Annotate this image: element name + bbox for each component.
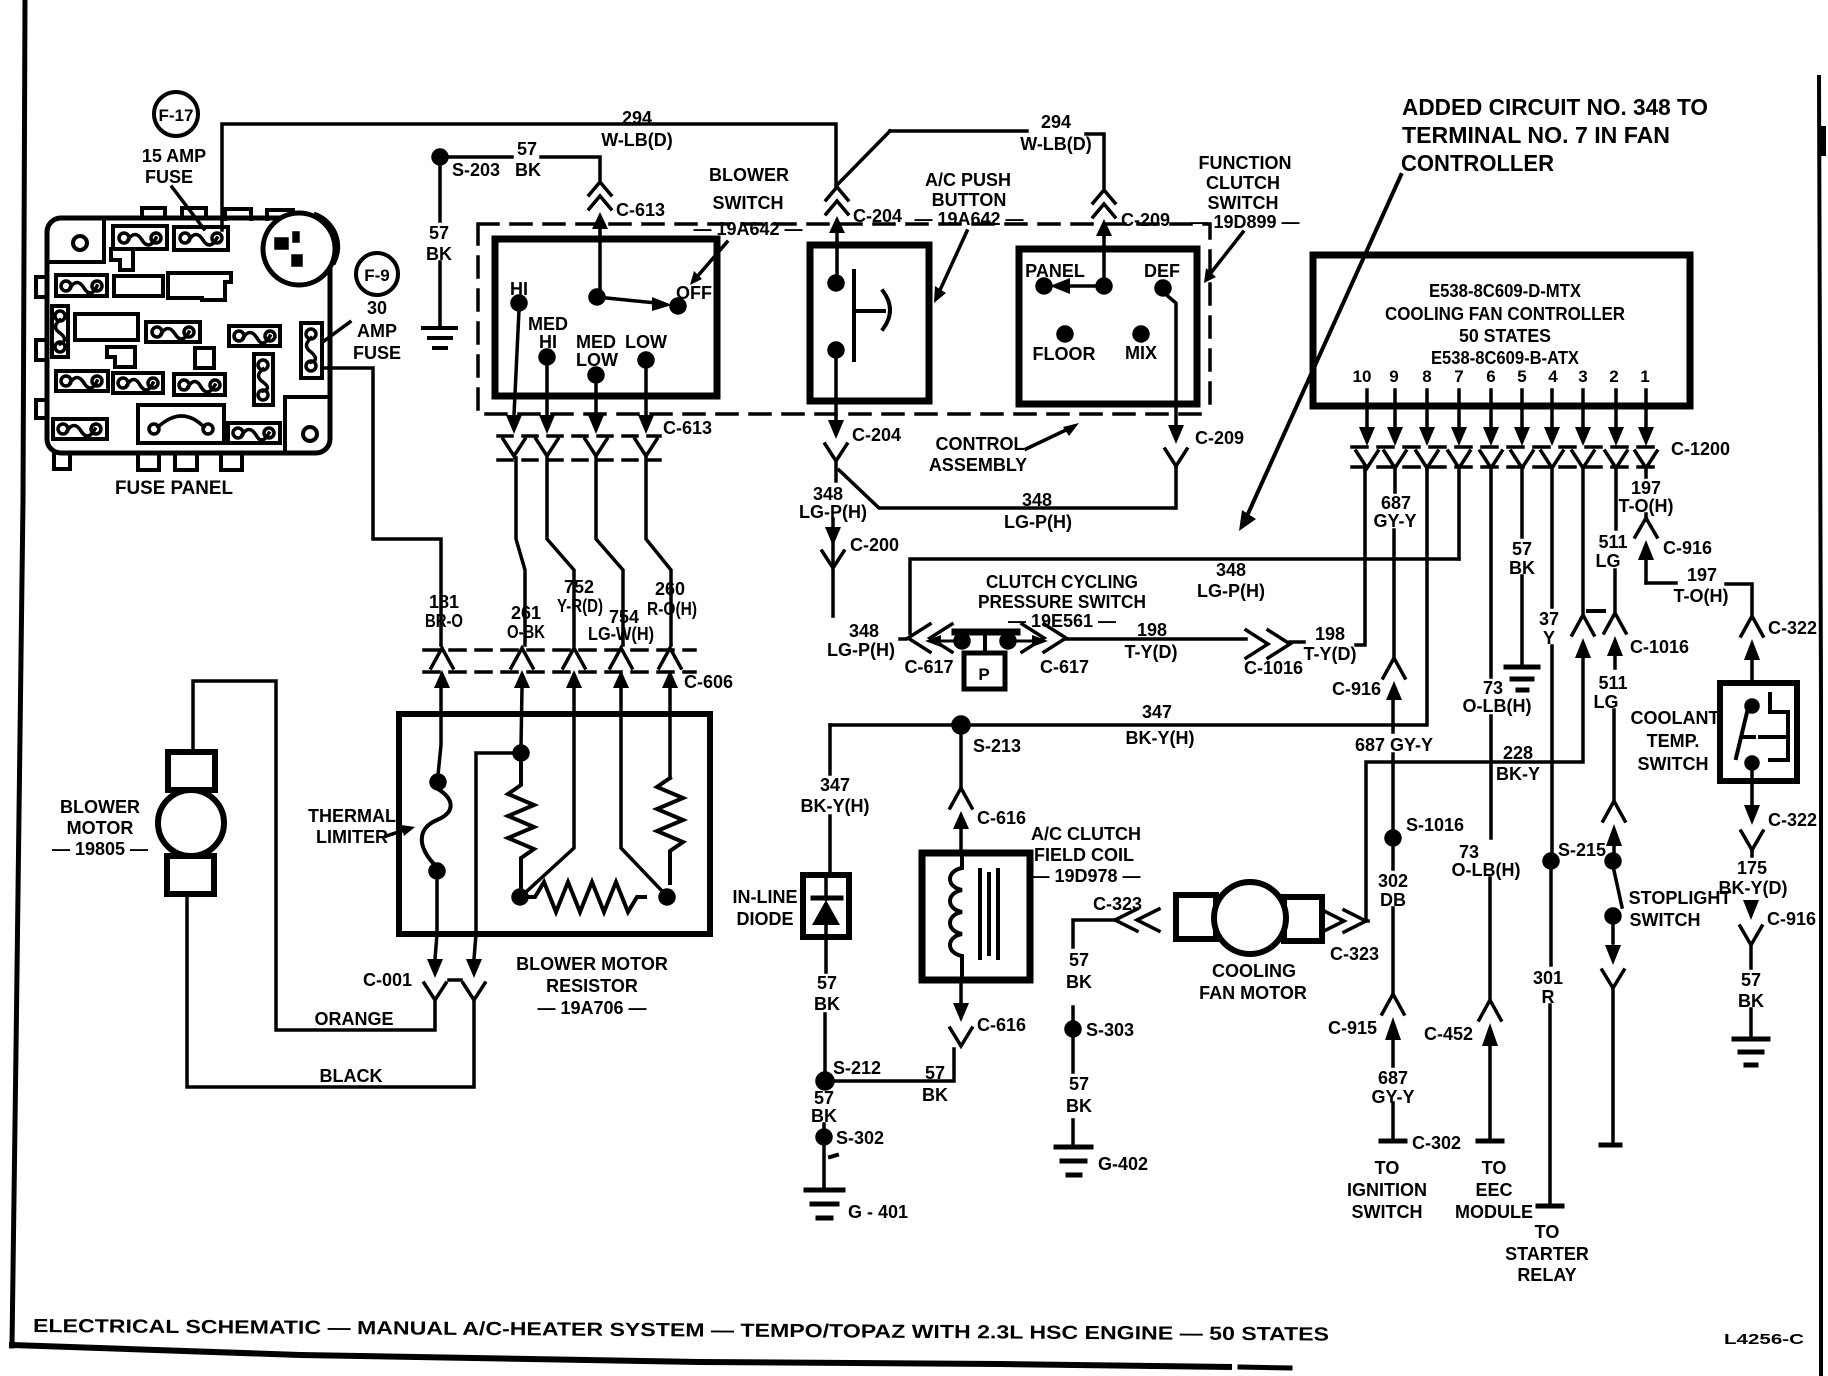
blower switch box 19A642 xyxy=(495,239,717,396)
fuse F3 xyxy=(56,275,107,296)
fuse F12 xyxy=(228,423,280,443)
resistor bottom-left node xyxy=(513,890,527,904)
svg-text:BUTTON: BUTTON xyxy=(932,190,1007,210)
pointer function clutch switch xyxy=(1210,232,1243,274)
svg-text:LG: LG xyxy=(1594,692,1619,712)
wire 181 BR-O from 30 amp fuse xyxy=(322,368,441,645)
svg-text:BLACK: BLACK xyxy=(320,1066,383,1086)
pointer arrow added circuit to C-1200 xyxy=(1247,175,1401,516)
dash at C-1016 xyxy=(1588,609,1604,613)
svg-text:8: 8 xyxy=(1422,367,1431,386)
control assembly dashed box xyxy=(478,224,1210,416)
svg-text:ORANGE: ORANGE xyxy=(314,1009,393,1029)
connector C-617 left xyxy=(908,624,952,652)
svg-text:57: 57 xyxy=(817,973,837,993)
wire 347 BK-Y(H) horizontal xyxy=(830,468,1427,725)
wire pin 5 57 BK to ground xyxy=(1520,468,1524,665)
connector C-204 top xyxy=(826,187,848,276)
wire S-302 to ground G-401 xyxy=(822,1144,826,1188)
connector C-322 bottom xyxy=(1741,805,1763,850)
wire S-212 to S-302 xyxy=(822,1124,826,1130)
svg-text:C-323: C-323 xyxy=(1093,894,1142,914)
fuse id circle F-9 xyxy=(356,253,398,295)
junction S-213 xyxy=(953,717,969,733)
fuse F8 xyxy=(56,371,108,391)
wire 73 to EEC bar xyxy=(1488,1046,1492,1138)
svg-text:Y: Y xyxy=(1543,628,1555,648)
svg-text:511: 511 xyxy=(1598,673,1627,693)
svg-text:DIODE: DIODE xyxy=(736,909,793,929)
wire 197 T-O(H) to coolant temp switch xyxy=(1646,583,1752,616)
svg-text:LG-P(H): LG-P(H) xyxy=(1197,581,1265,601)
svg-text:C-204: C-204 xyxy=(852,425,901,445)
svg-text:50 STATES: 50 STATES xyxy=(1459,326,1551,346)
svg-text:197: 197 xyxy=(1631,478,1661,498)
svg-text:C-606: C-606 xyxy=(684,672,733,692)
connector C-209 lower xyxy=(1165,425,1187,466)
svg-text:SWITCH: SWITCH xyxy=(1638,754,1709,774)
svg-text:S-203: S-203 xyxy=(452,160,500,180)
svg-text:TO: TO xyxy=(1535,1222,1560,1242)
svg-text:C-916: C-916 xyxy=(1332,679,1381,699)
svg-text:73: 73 xyxy=(1459,842,1479,862)
svg-text:MIX: MIX xyxy=(1125,343,1157,363)
svg-text:A/C PUSH: A/C PUSH xyxy=(925,170,1011,190)
svg-text:LG-P(H): LG-P(H) xyxy=(827,640,895,660)
svg-text:DEF: DEF xyxy=(1144,261,1180,281)
svg-text:9: 9 xyxy=(1389,367,1398,386)
fuse id circle F-17 xyxy=(154,92,198,136)
wire HI to connector xyxy=(514,310,519,415)
svg-text:198: 198 xyxy=(1137,620,1167,640)
fuse panel top tabs xyxy=(142,208,293,219)
svg-text:SWITCH: SWITCH xyxy=(713,193,784,213)
connector C-209 top xyxy=(1093,190,1115,279)
svg-text:C-915: C-915 xyxy=(1328,1018,1377,1038)
svg-text:347: 347 xyxy=(820,775,850,795)
svg-text:SWITCH: SWITCH xyxy=(1630,910,1701,930)
svg-text:T-O(H): T-O(H) xyxy=(1619,496,1674,516)
wire pin 7 348 LG-P(H) xyxy=(1457,468,1461,559)
junction dot 261 in resistor xyxy=(514,746,528,760)
thermal limiter element xyxy=(422,789,451,863)
wire 260 into resistor box xyxy=(668,688,672,778)
svg-text:348: 348 xyxy=(849,621,879,641)
wire DEF to C-209 lower xyxy=(1163,292,1176,425)
svg-text:348: 348 xyxy=(1022,490,1052,510)
wire MED LOW to connector xyxy=(594,382,598,415)
connector C-1200 row xyxy=(1356,427,1657,468)
fuse panel left tabs xyxy=(36,277,47,418)
svg-text:37: 37 xyxy=(1539,609,1559,629)
svg-text:R-O(H): R-O(H) xyxy=(647,599,697,619)
svg-text:— 19D978 —: — 19D978 — xyxy=(1031,866,1140,886)
svg-text:511: 511 xyxy=(1598,532,1627,552)
a/c clutch field coil 19D978 xyxy=(922,853,1030,980)
pointer thermal limiter xyxy=(386,830,405,836)
wire pin 1 197 T-O(H) xyxy=(1644,468,1648,518)
blower switch LOW contact xyxy=(639,353,653,367)
fuse panel vertical fuse V1 xyxy=(52,306,68,357)
svg-text:BK: BK xyxy=(1066,972,1092,992)
fuse F7 xyxy=(229,326,280,346)
wire blower HI to C-606 xyxy=(516,458,525,645)
wire 198 T-Y(D) xyxy=(1066,637,1246,641)
svg-text:EEC: EEC xyxy=(1475,1180,1512,1200)
svg-text:S-215: S-215 xyxy=(1558,840,1606,860)
svg-text:CONTROL: CONTROL xyxy=(936,434,1025,454)
svg-text:C-617: C-617 xyxy=(904,657,953,677)
svg-text:CONTROLLER: CONTROLLER xyxy=(1401,150,1554,176)
svg-text:C-322: C-322 xyxy=(1768,618,1817,638)
fuse panel plain rect D xyxy=(114,276,163,296)
svg-text:FLOOR: FLOOR xyxy=(1033,344,1096,364)
function switch common contact xyxy=(1097,279,1111,293)
svg-text:S-303: S-303 xyxy=(1086,1020,1134,1040)
blower switch MED HI contact xyxy=(540,350,554,364)
svg-text:LIMITER: LIMITER xyxy=(316,827,388,847)
svg-text:348: 348 xyxy=(1216,560,1246,580)
wire 294 W-LB(D) branch to function switch xyxy=(838,131,1104,189)
svg-text:P: P xyxy=(978,665,989,684)
connector C-323 right xyxy=(1322,910,1366,932)
terminal starter relay bar xyxy=(1538,1204,1562,1209)
svg-text:F-9: F-9 xyxy=(364,266,390,285)
svg-text:181: 181 xyxy=(429,592,459,612)
svg-text:3: 3 xyxy=(1578,367,1587,386)
connector C-616 lower xyxy=(950,980,972,1046)
svg-text:FIELD COIL: FIELD COIL xyxy=(1034,845,1134,865)
fuse panel relay rect E xyxy=(168,273,231,300)
svg-text:LG: LG xyxy=(1596,551,1621,571)
wire branch to C-001 black xyxy=(474,753,514,959)
svg-text:198: 198 xyxy=(1315,624,1345,644)
svg-text:CLUTCH CYCLING: CLUTCH CYCLING xyxy=(986,572,1138,592)
svg-text:175: 175 xyxy=(1737,858,1767,878)
svg-text:BLOWER: BLOWER xyxy=(709,165,789,185)
wire 57 BK to ground bottom right xyxy=(1749,945,1753,1037)
svg-text:294: 294 xyxy=(622,108,652,128)
svg-text:COOLANT: COOLANT xyxy=(1631,708,1720,728)
svg-text:LG-P(H): LG-P(H) xyxy=(799,502,867,522)
connector C-915 xyxy=(1382,994,1404,1040)
svg-text:C-1200: C-1200 xyxy=(1671,439,1730,459)
wire S-303 to ground xyxy=(1071,1036,1075,1145)
fuse panel wide rect xyxy=(75,314,138,340)
wire coolant temp to C-322 bottom xyxy=(1750,769,1754,805)
svg-text:DB: DB xyxy=(1380,890,1406,910)
svg-text:PRESSURE SWITCH: PRESSURE SWITCH xyxy=(978,592,1146,612)
wire orange loop xyxy=(193,681,435,1030)
connector C-452 xyxy=(1479,1000,1501,1046)
svg-text:261: 261 xyxy=(511,603,541,623)
svg-text:HI: HI xyxy=(510,279,528,299)
svg-text:FAN MOTOR: FAN MOTOR xyxy=(1199,983,1307,1003)
svg-text:2: 2 xyxy=(1609,367,1618,386)
fuse panel bottom tabs xyxy=(54,453,242,470)
svg-text:W-LB(D): W-LB(D) xyxy=(601,130,673,150)
svg-text:E538-8C609-B-ATX: E538-8C609-B-ATX xyxy=(1431,348,1579,368)
svg-text:57: 57 xyxy=(814,1088,834,1108)
in-line diode xyxy=(803,875,849,937)
ground bottom right xyxy=(1734,1039,1768,1065)
stoplight switch xyxy=(1606,854,1622,943)
blower motor resistor box 19A706 xyxy=(399,714,710,934)
wire 57 BK from S-203 to ground xyxy=(438,164,442,325)
wire 687 GY-Y to S-1016 xyxy=(1391,700,1395,830)
svg-text:MED: MED xyxy=(528,314,568,334)
svg-text:FUSE PANEL: FUSE PANEL xyxy=(115,478,233,499)
svg-text:SWITCH: SWITCH xyxy=(1352,1202,1423,1222)
wire pin 6 73 O-LB(H) xyxy=(1490,468,1491,1000)
connector C-1016 mid xyxy=(1246,630,1290,658)
svg-text:BR-O: BR-O xyxy=(425,611,463,631)
svg-text:HI: HI xyxy=(539,332,557,352)
wire 348 LG-P(H) to pin 7 with bracket xyxy=(910,559,1459,633)
wire 302 DB xyxy=(1391,845,1395,994)
svg-text:C-916: C-916 xyxy=(1663,538,1712,558)
svg-text:TO: TO xyxy=(1375,1158,1400,1178)
blower switch wiper pivot xyxy=(590,290,604,304)
svg-text:MOTOR: MOTOR xyxy=(67,818,134,838)
svg-text:C-613: C-613 xyxy=(663,418,712,438)
svg-text:— 19A706 —: — 19A706 — xyxy=(537,998,646,1018)
wire thermal limiter to C-001 xyxy=(435,878,437,959)
svg-text:57: 57 xyxy=(1069,950,1089,970)
svg-text:C-617: C-617 xyxy=(1040,657,1089,677)
connector C-001 xyxy=(424,959,485,1000)
junction S-1016 xyxy=(1386,831,1400,845)
wire S-212 to C-616 leg xyxy=(833,1049,954,1081)
fuse F11 xyxy=(53,419,107,439)
svg-text:OFF: OFF xyxy=(676,283,712,303)
svg-text:TEMP.: TEMP. xyxy=(1647,731,1700,751)
svg-text:E538-8C609-D-MTX: E538-8C609-D-MTX xyxy=(1429,281,1581,301)
wire LOW to connector xyxy=(644,367,648,415)
svg-text:MED: MED xyxy=(576,332,616,352)
junction S-215 xyxy=(1544,854,1558,868)
svg-text:LOW: LOW xyxy=(625,332,667,352)
function clutch switch box 19D899 xyxy=(1019,249,1197,404)
blower switch wiper arm to OFF xyxy=(597,297,656,303)
fuse panel big bottom fuse xyxy=(138,405,224,443)
fuse panel bottom-right compartment xyxy=(285,397,330,452)
coolant temp switch box xyxy=(1720,683,1797,781)
tick mark xyxy=(830,1155,837,1157)
dashed line C-606 row xyxy=(424,650,695,672)
svg-text:BK-Y(H): BK-Y(H) xyxy=(1126,728,1195,748)
svg-text:Y-R(D): Y-R(D) xyxy=(557,596,603,616)
svg-text:BK: BK xyxy=(922,1085,948,1105)
svg-text:BK: BK xyxy=(814,994,840,1014)
connector C-616 upper xyxy=(950,732,972,853)
dashed line C-613 row xyxy=(498,436,660,460)
svg-text:BK: BK xyxy=(1509,558,1535,578)
svg-text:C-323: C-323 xyxy=(1330,944,1379,964)
wire pin 9 687 GY-Y xyxy=(1394,468,1395,658)
svg-text:— 19E561 —: — 19E561 — xyxy=(1008,611,1116,631)
wire 198 T-Y(D) to pin 10 xyxy=(1290,468,1365,645)
svg-text:STARTER: STARTER xyxy=(1505,1244,1589,1264)
function switch wiper arm xyxy=(1066,284,1098,288)
dashed line C-1200 row xyxy=(1352,447,1664,467)
svg-text:57: 57 xyxy=(429,223,449,243)
page right border xyxy=(1819,77,1821,1376)
page bottom frame dash xyxy=(1240,1367,1290,1368)
svg-text:— 19A642 —: — 19A642 — xyxy=(693,219,802,239)
svg-text:7: 7 xyxy=(1454,367,1463,386)
svg-text:S-302: S-302 xyxy=(836,1128,884,1148)
svg-text:T-Y(D): T-Y(D) xyxy=(1304,644,1357,664)
svg-text:260: 260 xyxy=(655,579,685,599)
function switch DEF contact xyxy=(1156,281,1170,295)
thermal limiter top contact xyxy=(431,775,445,789)
connector C-322 top xyxy=(1741,616,1763,681)
svg-text:O-LB(H): O-LB(H) xyxy=(1452,860,1521,880)
fuse F10 xyxy=(174,374,225,395)
svg-text:C-1016: C-1016 xyxy=(1244,658,1303,678)
svg-text:57: 57 xyxy=(925,1063,945,1083)
wire fan motor left to ground xyxy=(1073,920,1115,1022)
wire 754 funnel right xyxy=(621,688,663,892)
svg-text:AMP: AMP xyxy=(357,321,397,341)
svg-text:LG-W(H): LG-W(H) xyxy=(588,624,654,644)
svg-text:302: 302 xyxy=(1378,871,1408,891)
wire 57 BK from S-203 to C-613 xyxy=(447,157,600,180)
function switch FLOOR contact xyxy=(1058,327,1072,341)
fuse F2 (15 amp) xyxy=(174,227,228,250)
connector C-613 lower row xyxy=(503,415,657,456)
svg-text:PANEL: PANEL xyxy=(1025,261,1085,281)
wire 348 stub into C-617 xyxy=(900,637,906,641)
svg-text:348: 348 xyxy=(813,484,843,504)
svg-text:C-616: C-616 xyxy=(977,1015,1026,1035)
svg-text:57: 57 xyxy=(1512,539,1532,559)
wire 752 funnel left xyxy=(526,688,574,892)
clutch cycling pressure switch 19E561 xyxy=(925,632,1048,689)
cooling fan motor xyxy=(1176,882,1322,954)
svg-text:TO: TO xyxy=(1482,1158,1507,1178)
fuse panel vertical fuse V2 xyxy=(254,354,273,405)
cooling fan controller box xyxy=(1313,255,1690,406)
fuse F1 xyxy=(113,226,167,249)
resistor element R3 horizontal xyxy=(527,882,645,912)
connector C-204 lower xyxy=(825,420,847,461)
a/c push button actuator xyxy=(854,271,890,360)
wire 181 into resistor box xyxy=(438,688,441,775)
ground G-402 xyxy=(1056,1147,1091,1175)
wire 348 LG-P(H) from C-209 xyxy=(1174,466,1178,508)
svg-text:GY-Y: GY-Y xyxy=(1371,1087,1414,1107)
svg-text:10: 10 xyxy=(1353,367,1372,386)
svg-text:COOLING FAN CONTROLLER: COOLING FAN CONTROLLER xyxy=(1385,304,1625,324)
svg-text:STOPLIGHT: STOPLIGHT xyxy=(1629,888,1732,908)
connector C-916 pin 9 xyxy=(1383,658,1405,700)
stoplight switch connector xyxy=(1603,801,1625,853)
junction S-212 xyxy=(817,1073,833,1089)
svg-text:RESISTOR: RESISTOR xyxy=(546,976,638,996)
svg-text:6: 6 xyxy=(1486,367,1495,386)
svg-text:LOW: LOW xyxy=(576,350,618,370)
wire 347 BK-Y(H) to diode xyxy=(828,725,832,872)
pointer a/c push button xyxy=(940,231,967,290)
svg-text:FUSE: FUSE xyxy=(145,167,193,187)
fuse panel small shape G xyxy=(107,347,135,367)
wire blower LOW to C-606 xyxy=(646,458,671,645)
connector C-606 row xyxy=(431,648,681,688)
connector C-916 bottom right xyxy=(1740,900,1762,945)
pointer 15 amp fuse xyxy=(172,187,204,229)
svg-text:C-200: C-200 xyxy=(850,535,899,555)
wire 301 R xyxy=(1550,868,1551,1203)
svg-text:294: 294 xyxy=(1041,112,1071,132)
svg-text:ADDED CIRCUIT NO. 348 TO: ADDED CIRCUIT NO. 348 TO xyxy=(1402,94,1708,120)
svg-text:THERMAL: THERMAL xyxy=(308,806,396,826)
svg-text:BK-Y(H): BK-Y(H) xyxy=(801,796,870,816)
svg-text:C-322: C-322 xyxy=(1768,810,1817,830)
svg-text:C-209: C-209 xyxy=(1195,428,1244,448)
connector C-1016 right pair xyxy=(1604,613,1626,799)
svg-text:687: 687 xyxy=(1381,493,1411,513)
svg-text:1: 1 xyxy=(1640,367,1649,386)
resistor element R1 vertical xyxy=(508,760,534,890)
svg-text:C-1016: C-1016 xyxy=(1630,637,1689,657)
svg-text:197: 197 xyxy=(1687,565,1717,585)
fuse panel xyxy=(36,208,338,470)
page left border xyxy=(12,0,25,1346)
wire pin 2 to C-1016 right xyxy=(1615,468,1616,611)
svg-text:G - 401: G - 401 xyxy=(848,1202,908,1222)
connector C-1016 left pair xyxy=(1572,615,1594,759)
blower switch OFF contact xyxy=(671,299,685,313)
wire 175 BK-Y(D) xyxy=(1750,850,1754,856)
svg-text:301: 301 xyxy=(1533,968,1563,988)
svg-text:BK: BK xyxy=(811,1106,837,1126)
fuse panel vertical fuse V3 (30 amp) xyxy=(301,323,322,378)
controller pin stems xyxy=(1367,390,1646,427)
wire 348 LG-P(H) from C-204 down xyxy=(833,461,836,616)
svg-text:S-212: S-212 xyxy=(833,1058,881,1078)
svg-text:MODULE: MODULE xyxy=(1455,1202,1533,1222)
svg-text:W-LB(D): W-LB(D) xyxy=(1020,134,1092,154)
svg-text:IGNITION: IGNITION xyxy=(1347,1180,1427,1200)
function switch PANEL contact xyxy=(1037,279,1051,293)
ground G-401 xyxy=(806,1190,843,1218)
svg-text:30: 30 xyxy=(367,298,387,318)
a/c push button box 19A642 xyxy=(810,245,929,401)
connector C-613 top xyxy=(589,182,611,290)
svg-text:57: 57 xyxy=(1741,970,1761,990)
svg-text:C-209: C-209 xyxy=(1121,210,1170,230)
fuse F6 xyxy=(146,322,200,342)
fuse panel big round connector xyxy=(263,213,335,285)
svg-text:C-616: C-616 xyxy=(977,808,1026,828)
wire 228 BK-Y from fan motor right xyxy=(1366,762,1583,921)
pointer control assembly xyxy=(1026,429,1068,449)
connector C-200 xyxy=(822,527,844,568)
wire 348 LG-P(H) diagonal to C-209 leg xyxy=(839,470,1175,508)
svg-text:R: R xyxy=(1542,987,1555,1007)
svg-text:S-213: S-213 xyxy=(973,736,1021,756)
svg-text:— 19A642 —: — 19A642 — xyxy=(914,209,1023,229)
svg-text:73: 73 xyxy=(1483,678,1503,698)
wire diode to S-212 xyxy=(825,937,826,1074)
svg-text:LG-P(H): LG-P(H) xyxy=(1004,512,1072,532)
svg-text:FUNCTION: FUNCTION xyxy=(1199,153,1292,173)
page right border nub xyxy=(1818,130,1826,152)
svg-text:FUSE: FUSE xyxy=(353,343,401,363)
connector C-323 left xyxy=(1115,909,1159,931)
